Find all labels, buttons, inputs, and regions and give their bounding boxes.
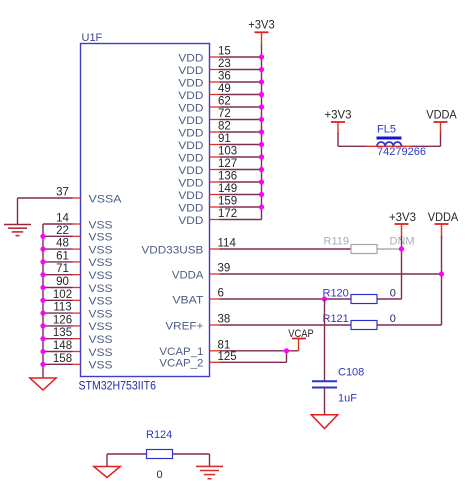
- svg-text:149: 149: [218, 183, 237, 195]
- svg-text:0: 0: [390, 288, 396, 300]
- wire VBAT pin6 to R120: [220, 298, 352, 300]
- pin VSS 102 (stub, wire, number, name): [43, 289, 113, 308]
- svg-text:VSS: VSS: [89, 334, 113, 346]
- svg-text:R121: R121: [323, 313, 349, 325]
- svg-text:135: 135: [53, 327, 72, 339]
- pin VDD 149 (stub, wire, number, name): [178, 183, 261, 202]
- svg-text:VDD: VDD: [178, 115, 203, 127]
- svg-text:VDD: VDD: [178, 140, 203, 152]
- svg-text:VSS: VSS: [89, 321, 113, 333]
- svg-text:U1F: U1F: [82, 32, 103, 44]
- svg-text:VDD: VDD: [178, 165, 203, 177]
- capacitor C108 value 1uF: [312, 367, 364, 405]
- svg-text:VSS: VSS: [89, 270, 113, 282]
- wire R124 right to ground: [173, 454, 210, 467]
- power +3V3 (top) symbol and stub: [248, 20, 275, 46]
- svg-text:VDD: VDD: [178, 90, 203, 102]
- pin VDD 103 (stub, wire, number, name): [178, 146, 261, 165]
- svg-text:36: 36: [218, 71, 231, 83]
- wire +3V3 down and to FL5: [338, 133, 367, 146]
- power VDDA (FL5 section) symbol: [426, 109, 457, 134]
- pin VDD 36 (stub, wire, number, name): [178, 71, 261, 90]
- svg-text:VDDA: VDDA: [426, 109, 457, 121]
- pin VSS 48 (stub, wire, number, name): [43, 238, 113, 257]
- wire R124 left to ground: [107, 454, 147, 467]
- svg-text:VDD: VDD: [178, 102, 203, 114]
- svg-text:VSS: VSS: [89, 283, 113, 295]
- ground earth symbol for VSSA: [4, 225, 31, 236]
- pin VDD 91 (stub, wire, number, name): [178, 133, 261, 152]
- svg-text:14: 14: [56, 213, 69, 225]
- svg-text:159: 159: [218, 196, 237, 208]
- svg-text:158: 158: [53, 353, 72, 365]
- svg-text:0: 0: [390, 313, 396, 325]
- pin VDD 127 (stub, wire, number, name): [178, 158, 261, 177]
- pin VSS 90 (stub, wire, number, name): [43, 276, 113, 295]
- pin VDDA 39 (stub, number, name): [172, 263, 230, 282]
- svg-text:136: 136: [218, 171, 237, 183]
- pin VSS 135 (stub, wire, number, name): [43, 327, 113, 346]
- svg-text:82: 82: [218, 121, 231, 133]
- svg-text:VDD: VDD: [178, 52, 203, 64]
- resistor R120 value 0: [323, 288, 402, 304]
- svg-text:103: 103: [218, 146, 237, 158]
- wire VCAP_2 pin125 with riser: [220, 351, 287, 363]
- pin VSS 22 (stub, wire, number, name): [43, 225, 113, 244]
- svg-text:VDD: VDD: [178, 215, 203, 227]
- svg-text:R119: R119: [324, 236, 349, 248]
- junction dots on +3V3 VDD rail: [259, 54, 264, 209]
- pin VDD33USB 114 (stub, number, name): [141, 238, 236, 257]
- net label VCAP power bar: [288, 328, 314, 351]
- junction dot pin39/VDDA: [439, 271, 444, 276]
- wire VDDA vertical to R121: [441, 236, 443, 325]
- wire +3V3 vertical to R120: [401, 236, 403, 299]
- svg-text:125: 125: [218, 351, 237, 363]
- junction dots on VSS rail: [40, 234, 45, 367]
- svg-text:VDD: VDD: [178, 152, 203, 164]
- svg-text:22: 22: [56, 225, 69, 237]
- wire +3V3 VDD rail vertical: [261, 45, 263, 220]
- wire VSS rail vertical: [42, 224, 44, 378]
- svg-text:23: 23: [218, 58, 231, 70]
- svg-text:VSS: VSS: [89, 360, 113, 372]
- pin VCAP_2 125 (stub, number, name): [159, 351, 236, 370]
- svg-text:102: 102: [53, 289, 72, 301]
- svg-text:VCAP: VCAP: [288, 328, 314, 340]
- resistor R119 (DNM, not mounted): [324, 236, 415, 254]
- svg-text:148: 148: [53, 340, 72, 352]
- svg-text:VDD: VDD: [178, 177, 203, 189]
- svg-text:127: 127: [218, 158, 237, 170]
- wire VDD33USB pin114 to R119: [220, 248, 352, 250]
- svg-text:VDD: VDD: [178, 65, 203, 77]
- svg-text:71: 71: [56, 263, 69, 275]
- svg-text:91: 91: [218, 133, 231, 145]
- svg-text:VDD: VDD: [178, 202, 203, 214]
- svg-text:VDDA: VDDA: [172, 269, 204, 281]
- svg-text:113: 113: [53, 302, 71, 314]
- wire C108 to ground: [324, 388, 326, 416]
- ground triangle below C108: [311, 415, 337, 429]
- junction dot VCAP: [284, 348, 289, 353]
- wire VDDA pin39 horizontal: [220, 273, 442, 275]
- svg-text:R124: R124: [146, 429, 172, 441]
- wire pin6 junction down to C108: [324, 299, 326, 381]
- svg-text:126: 126: [53, 314, 72, 326]
- pin VSS 148 (stub, wire, number, name): [43, 340, 113, 359]
- svg-text:VCAP_1: VCAP_1: [159, 346, 203, 358]
- wire VSSA down to ground: [17, 198, 19, 225]
- svg-text:39: 39: [218, 263, 231, 275]
- IC U1F body (STM32H753IIT6): [81, 44, 210, 377]
- svg-text:90: 90: [56, 276, 69, 288]
- svg-text:49: 49: [218, 83, 231, 95]
- pin VSSA 37 (stub, wire, number, name): [18, 187, 123, 206]
- svg-text:1uF: 1uF: [338, 393, 357, 405]
- pin VDD 62 (stub, wire, number, name): [178, 96, 261, 115]
- svg-text:C108: C108: [338, 367, 364, 379]
- pin VDD 15 (stub, wire, number, name): [178, 46, 261, 65]
- svg-text:+3V3: +3V3: [248, 20, 275, 32]
- pin VDD 49 (stub, wire, number, name): [178, 83, 261, 102]
- pin VDD 172 (stub, wire, number, name): [178, 208, 261, 227]
- svg-text:VSS: VSS: [89, 296, 113, 308]
- svg-text:6: 6: [218, 288, 224, 300]
- svg-text:172: 172: [218, 208, 237, 220]
- pin VDD 72 (stub, wire, number, name): [178, 108, 261, 127]
- svg-text:FL5: FL5: [377, 124, 396, 136]
- svg-text:VDD: VDD: [178, 127, 203, 139]
- junction dot pin6/C108: [322, 296, 327, 301]
- svg-text:74279266: 74279266: [377, 146, 426, 158]
- svg-text:VSS: VSS: [89, 308, 113, 320]
- ground earth symbol right of R124: [196, 466, 223, 478]
- pin VSS 71 (stub, wire, number, name): [43, 263, 113, 282]
- designator U1F: [82, 32, 103, 44]
- svg-text:0: 0: [157, 469, 163, 481]
- pin VDD 159 (stub, wire, number, name): [178, 196, 261, 215]
- svg-text:VBAT: VBAT: [172, 294, 203, 306]
- wire VREF+ pin38 to R121: [220, 324, 352, 326]
- resistor R121 value 0: [323, 313, 442, 329]
- svg-text:VCAP_2: VCAP_2: [159, 358, 203, 370]
- power +3V3 (FL5 section) symbol: [325, 110, 352, 134]
- svg-text:VSS: VSS: [89, 219, 113, 231]
- svg-text:48: 48: [56, 238, 69, 250]
- pin VDD 82 (stub, wire, number, name): [178, 121, 261, 140]
- svg-text:VDD: VDD: [178, 190, 203, 202]
- power VDDA (section 2) symbol: [428, 212, 459, 237]
- pin VBAT 6 (stub, number, name): [172, 288, 224, 307]
- svg-text:VSS: VSS: [89, 257, 113, 269]
- pin VSS 158 (stub, wire, number, name): [43, 353, 113, 372]
- pin VSS 126 (stub, wire, number, name): [43, 314, 113, 333]
- svg-text:15: 15: [218, 46, 231, 58]
- svg-text:61: 61: [56, 250, 69, 262]
- svg-text:114: 114: [218, 238, 237, 250]
- ferrite bead FL5 value 74279266: [366, 124, 426, 159]
- pin VSS 14 (stub, wire, number, name): [43, 213, 113, 232]
- pin VDD 23 (stub, wire, number, name): [178, 58, 261, 77]
- svg-text:72: 72: [218, 108, 231, 120]
- svg-text:STM32H753IIT6: STM32H753IIT6: [79, 379, 157, 393]
- pin VSS 113 (stub, wire, number, name): [43, 302, 113, 321]
- pin VCAP_1 81 (stub, number, name): [159, 339, 230, 358]
- svg-text:VDDA: VDDA: [428, 212, 459, 224]
- svg-text:81: 81: [218, 339, 231, 351]
- wire VDDA down and to FL5: [412, 133, 441, 146]
- svg-text:62: 62: [218, 96, 231, 108]
- junction dot R119/+3V3: [399, 246, 404, 251]
- svg-text:VSS: VSS: [89, 347, 113, 359]
- wire VCAP_1 pin81: [220, 350, 299, 352]
- svg-text:VDD: VDD: [178, 77, 203, 89]
- svg-text:VREF+: VREF+: [165, 320, 203, 332]
- svg-text:VSS: VSS: [89, 244, 113, 256]
- ground triangle for VSS rail: [30, 378, 56, 390]
- part number STM32H753IIT6: [79, 379, 157, 393]
- resistor R124 value 0: [146, 429, 173, 481]
- svg-text:+3V3: +3V3: [325, 110, 352, 122]
- svg-text:38: 38: [218, 314, 231, 326]
- ground triangle left of R124: [94, 467, 120, 478]
- svg-text:VSS: VSS: [89, 232, 113, 244]
- svg-text:+3V3: +3V3: [389, 212, 416, 224]
- pin VDD 136 (stub, wire, number, name): [178, 171, 261, 190]
- pin VSS 61 (stub, wire, number, name): [43, 250, 113, 269]
- svg-text:37: 37: [56, 187, 69, 199]
- svg-text:VDD33USB: VDD33USB: [141, 244, 203, 256]
- pin VREF+ 38 (stub, number, name): [165, 314, 230, 333]
- svg-text:VSSA: VSSA: [89, 194, 123, 206]
- power +3V3 (section 2) symbol: [389, 212, 416, 237]
